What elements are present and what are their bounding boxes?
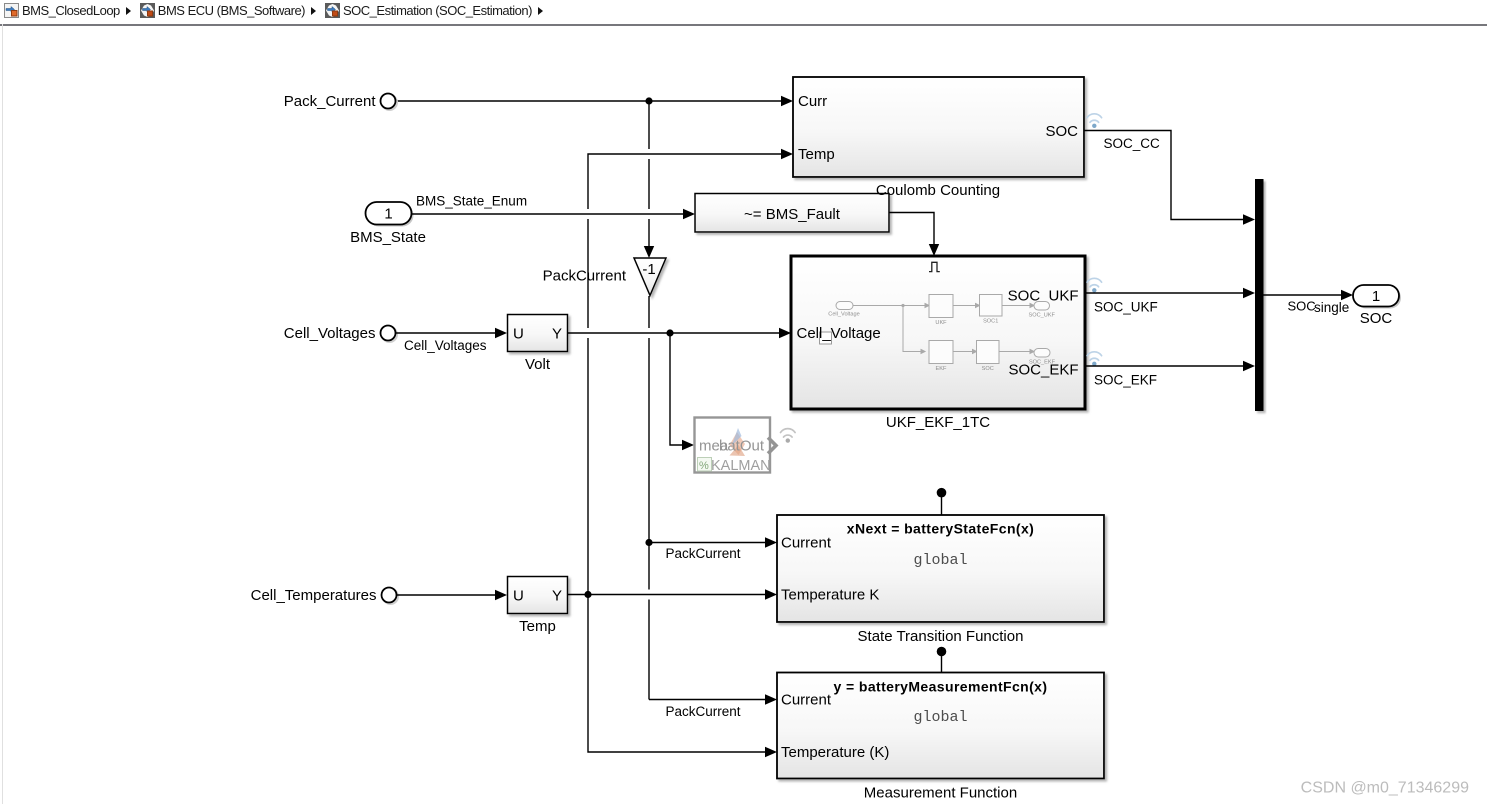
label SOCsingle <box>1288 299 1350 315</box>
svg-text:global: global <box>913 552 967 569</box>
block Coulomb Counting <box>793 77 1084 177</box>
breadcrumb icon BMS_ClosedLoop <box>4 3 19 18</box>
svg-text:~= BMS_Fault: ~= BMS_Fault <box>744 206 841 223</box>
wire gain down to bottom branches <box>648 296 650 700</box>
UKF inner preview <box>836 295 1050 364</box>
svg-text:State Transition Function: State Transition Function <box>858 628 1024 645</box>
breadcrumb toolbar <box>0 0 1487 26</box>
badge wifi SOC_UKF <box>1087 278 1102 292</box>
junction Cell_Voltage branch <box>666 329 673 336</box>
junction PackCurrent top <box>645 97 652 104</box>
svg-text:SOC1: SOC1 <box>983 319 998 325</box>
junction PackCurrent to State Transition <box>645 539 652 546</box>
svg-text:Temperature (K): Temperature (K) <box>781 744 889 761</box>
svg-text:PackCurrent: PackCurrent <box>666 704 741 719</box>
svg-text:Cell_Voltages: Cell_Voltages <box>404 338 487 353</box>
input port circle Cell_Voltages <box>381 326 398 343</box>
block State Transition Function <box>777 515 1104 622</box>
svg-text:EKF: EKF <box>936 366 947 372</box>
svg-text:xNext = batteryStateFcn(x): xNext = batteryStateFcn(x) <box>847 521 1034 537</box>
wire Cell_Voltages to Volt <box>396 328 507 338</box>
svg-text:SOC_UKF: SOC_UKF <box>1028 313 1055 319</box>
svg-text:SOC: SOC <box>1288 299 1316 314</box>
wire PackCurrent to State Transition Current <box>649 537 777 547</box>
wire Temp riser down to Measurement Temperature <box>588 595 777 758</box>
svg-text:1: 1 <box>1372 288 1380 305</box>
wire mux to SOC outport <box>1264 290 1354 300</box>
breadcrumb icon BMS ECU <box>140 3 155 18</box>
wire PackCurrent to Measurement Current <box>649 694 777 704</box>
svg-text:1: 1 <box>384 206 392 223</box>
svg-text:-1: -1 <box>642 261 655 278</box>
block Volt selector <box>508 315 568 352</box>
svg-text:%: % <box>699 460 709 472</box>
wire BMS_State to BMS_Fault <box>412 209 696 219</box>
wire PackCurrent down to gain <box>644 101 654 258</box>
svg-text:U: U <box>513 326 524 343</box>
block ~= BMS_Fault <box>695 194 889 233</box>
breadcrumb icon SOC_Estimation <box>325 3 340 18</box>
svg-text:Pack_Current: Pack_Current <box>284 93 377 110</box>
svg-text:Cell_Voltage: Cell_Voltage <box>797 325 881 342</box>
svg-text:Current: Current <box>781 692 832 709</box>
caller dot State Transition <box>937 488 947 515</box>
junction Temp riser <box>584 591 591 598</box>
badge wifi SOC_EKF <box>1087 352 1102 366</box>
caller dot Measurement <box>937 647 947 673</box>
wire Pack_Current to Coulomb Curr <box>396 96 793 106</box>
block UKF_EKF_1TC <box>791 256 1085 409</box>
svg-text:batOut: batOut <box>719 438 765 455</box>
wire Cell_Temperatures to Temp <box>397 590 507 600</box>
badge wifi SOC_CC <box>1087 114 1102 128</box>
svg-text:SOC_UKF: SOC_UKF <box>1094 300 1158 315</box>
wire Temp to State Transition Temperature K <box>568 589 778 599</box>
block KALMAN commented out <box>695 418 777 475</box>
svg-text:SOC_EKF: SOC_EKF <box>1094 373 1157 388</box>
svg-text:Measurement Function: Measurement Function <box>864 785 1017 802</box>
svg-text:UKF: UKF <box>935 320 947 326</box>
svg-text:PackCurrent: PackCurrent <box>666 546 741 561</box>
wire Temp riser up to Coulomb Temp <box>588 149 793 595</box>
svg-text:BMS_State_Enum: BMS_State_Enum <box>416 194 527 209</box>
svg-text:KALMAN: KALMAN <box>711 458 771 474</box>
svg-text:U: U <box>513 588 524 605</box>
svg-text:Y: Y <box>552 326 562 343</box>
svg-text:global: global <box>913 709 967 726</box>
svg-text:CSDN @m0_71346299: CSDN @m0_71346299 <box>1301 780 1469 797</box>
wire SOC_UKF to mux <box>1086 288 1255 298</box>
inport BMS_State <box>366 202 414 227</box>
svg-text:Coulomb Counting: Coulomb Counting <box>876 182 1000 199</box>
input port circle Pack_Current <box>381 94 398 111</box>
svg-text:Y: Y <box>552 588 562 605</box>
svg-text:single: single <box>1314 300 1349 315</box>
svg-text:SOC: SOC <box>982 366 994 372</box>
svg-text:Temp: Temp <box>798 146 835 163</box>
wire BMS_Fault to UKF trigger <box>889 213 939 257</box>
wire SOC_EKF to mux <box>1086 361 1255 371</box>
svg-text:SOC_EKF: SOC_EKF <box>1029 360 1056 366</box>
svg-text:Cell_Voltages: Cell_Voltages <box>284 325 376 342</box>
mux bar <box>1255 179 1264 411</box>
wire SOC_CC to mux <box>1085 131 1256 225</box>
svg-text:Curr: Curr <box>798 93 827 110</box>
badge wifi KALMAN faded <box>781 429 796 443</box>
wire Volt to UKF Cell_Voltage <box>568 328 792 338</box>
svg-text:BMS_State: BMS_State <box>350 229 426 246</box>
svg-text:Temperature K: Temperature K <box>781 587 879 604</box>
svg-text:PackCurrent: PackCurrent <box>543 268 627 285</box>
svg-text:Current: Current <box>781 535 832 552</box>
svg-text:UKF_EKF_1TC: UKF_EKF_1TC <box>886 414 990 431</box>
UKF inner tiny labels <box>828 312 1055 373</box>
svg-text:SOC: SOC <box>1045 123 1078 140</box>
svg-text:Cell_Temperatures: Cell_Temperatures <box>251 587 377 604</box>
svg-text:y = batteryMeasurementFcn(x): y = batteryMeasurementFcn(x) <box>834 679 1048 695</box>
svg-text:Temp: Temp <box>519 618 556 635</box>
outport SOC <box>1353 285 1401 309</box>
block Temp selector <box>508 577 568 614</box>
svg-text:SOC_CC: SOC_CC <box>1104 136 1161 151</box>
svg-text:Volt: Volt <box>525 356 551 373</box>
gain -1 <box>634 258 666 296</box>
block Measurement Function <box>777 673 1104 779</box>
wire branch to KALMAN <box>670 333 694 450</box>
input port circle Cell_Temperatures <box>382 588 399 605</box>
svg-text:Cell_Voltage: Cell_Voltage <box>828 312 859 318</box>
svg-text:SOC: SOC <box>1360 310 1393 327</box>
